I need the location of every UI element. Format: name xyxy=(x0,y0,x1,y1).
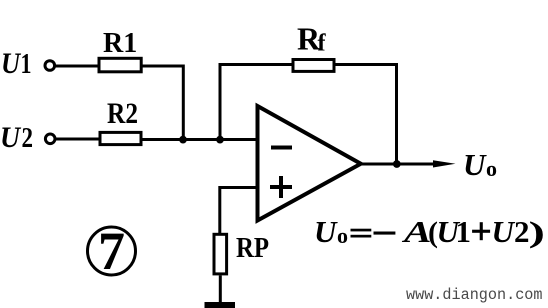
svg-text:U: U xyxy=(492,214,516,249)
op-amp inverting input symbol (minus) xyxy=(271,146,292,150)
wire RP to ground xyxy=(219,276,222,304)
svg-text:1: 1 xyxy=(456,214,472,249)
resistor R2 xyxy=(100,132,141,144)
figure number 7 circle xyxy=(88,227,136,275)
junction node B xyxy=(216,136,224,144)
resistor Rf xyxy=(293,60,334,72)
svg-text:U: U xyxy=(463,147,487,182)
svg-text:2: 2 xyxy=(22,123,34,154)
svg-text:7: 7 xyxy=(98,221,125,281)
wire Rf to output node xyxy=(335,65,397,165)
input terminal U2 xyxy=(45,134,55,144)
svg-text:www.diangon.com: www.diangon.com xyxy=(406,286,543,304)
svg-text:2: 2 xyxy=(514,214,530,249)
svg-text:o: o xyxy=(337,223,348,248)
resistor R1 xyxy=(99,58,141,72)
wire U1 terminal to R1 xyxy=(56,65,100,68)
svg-text:A: A xyxy=(401,214,431,249)
wire U2 terminal to R2 xyxy=(56,138,100,141)
svg-text:RP: RP xyxy=(236,233,269,264)
svg-text:1: 1 xyxy=(21,49,32,80)
junction output node xyxy=(393,160,401,168)
op-amp triangle xyxy=(258,106,361,221)
svg-text:U: U xyxy=(0,121,21,154)
op-amp non-inverting input symbol (plus) xyxy=(270,176,292,198)
formula Uo = -A(U1+U2) xyxy=(314,214,545,249)
wire R2 to op-amp inverting input xyxy=(142,138,259,141)
ground xyxy=(205,302,236,308)
svg-text:o: o xyxy=(486,156,497,181)
svg-text:R2: R2 xyxy=(107,97,138,130)
svg-text:R1: R1 xyxy=(103,28,137,59)
wire node B up and over to Rf xyxy=(220,65,292,140)
wire op-amp output xyxy=(361,163,438,166)
resistor RP xyxy=(214,234,227,274)
wire op-amp non-inverting input to RP xyxy=(220,188,258,234)
svg-text:f: f xyxy=(318,31,327,57)
svg-text:): ) xyxy=(529,216,546,249)
svg-text:U: U xyxy=(314,214,338,249)
junction node A xyxy=(179,136,187,144)
arrowhead to Uo xyxy=(433,160,456,167)
wire R1 to node A xyxy=(142,66,184,137)
input terminal U1 xyxy=(45,61,55,71)
svg-text:U: U xyxy=(1,47,21,80)
